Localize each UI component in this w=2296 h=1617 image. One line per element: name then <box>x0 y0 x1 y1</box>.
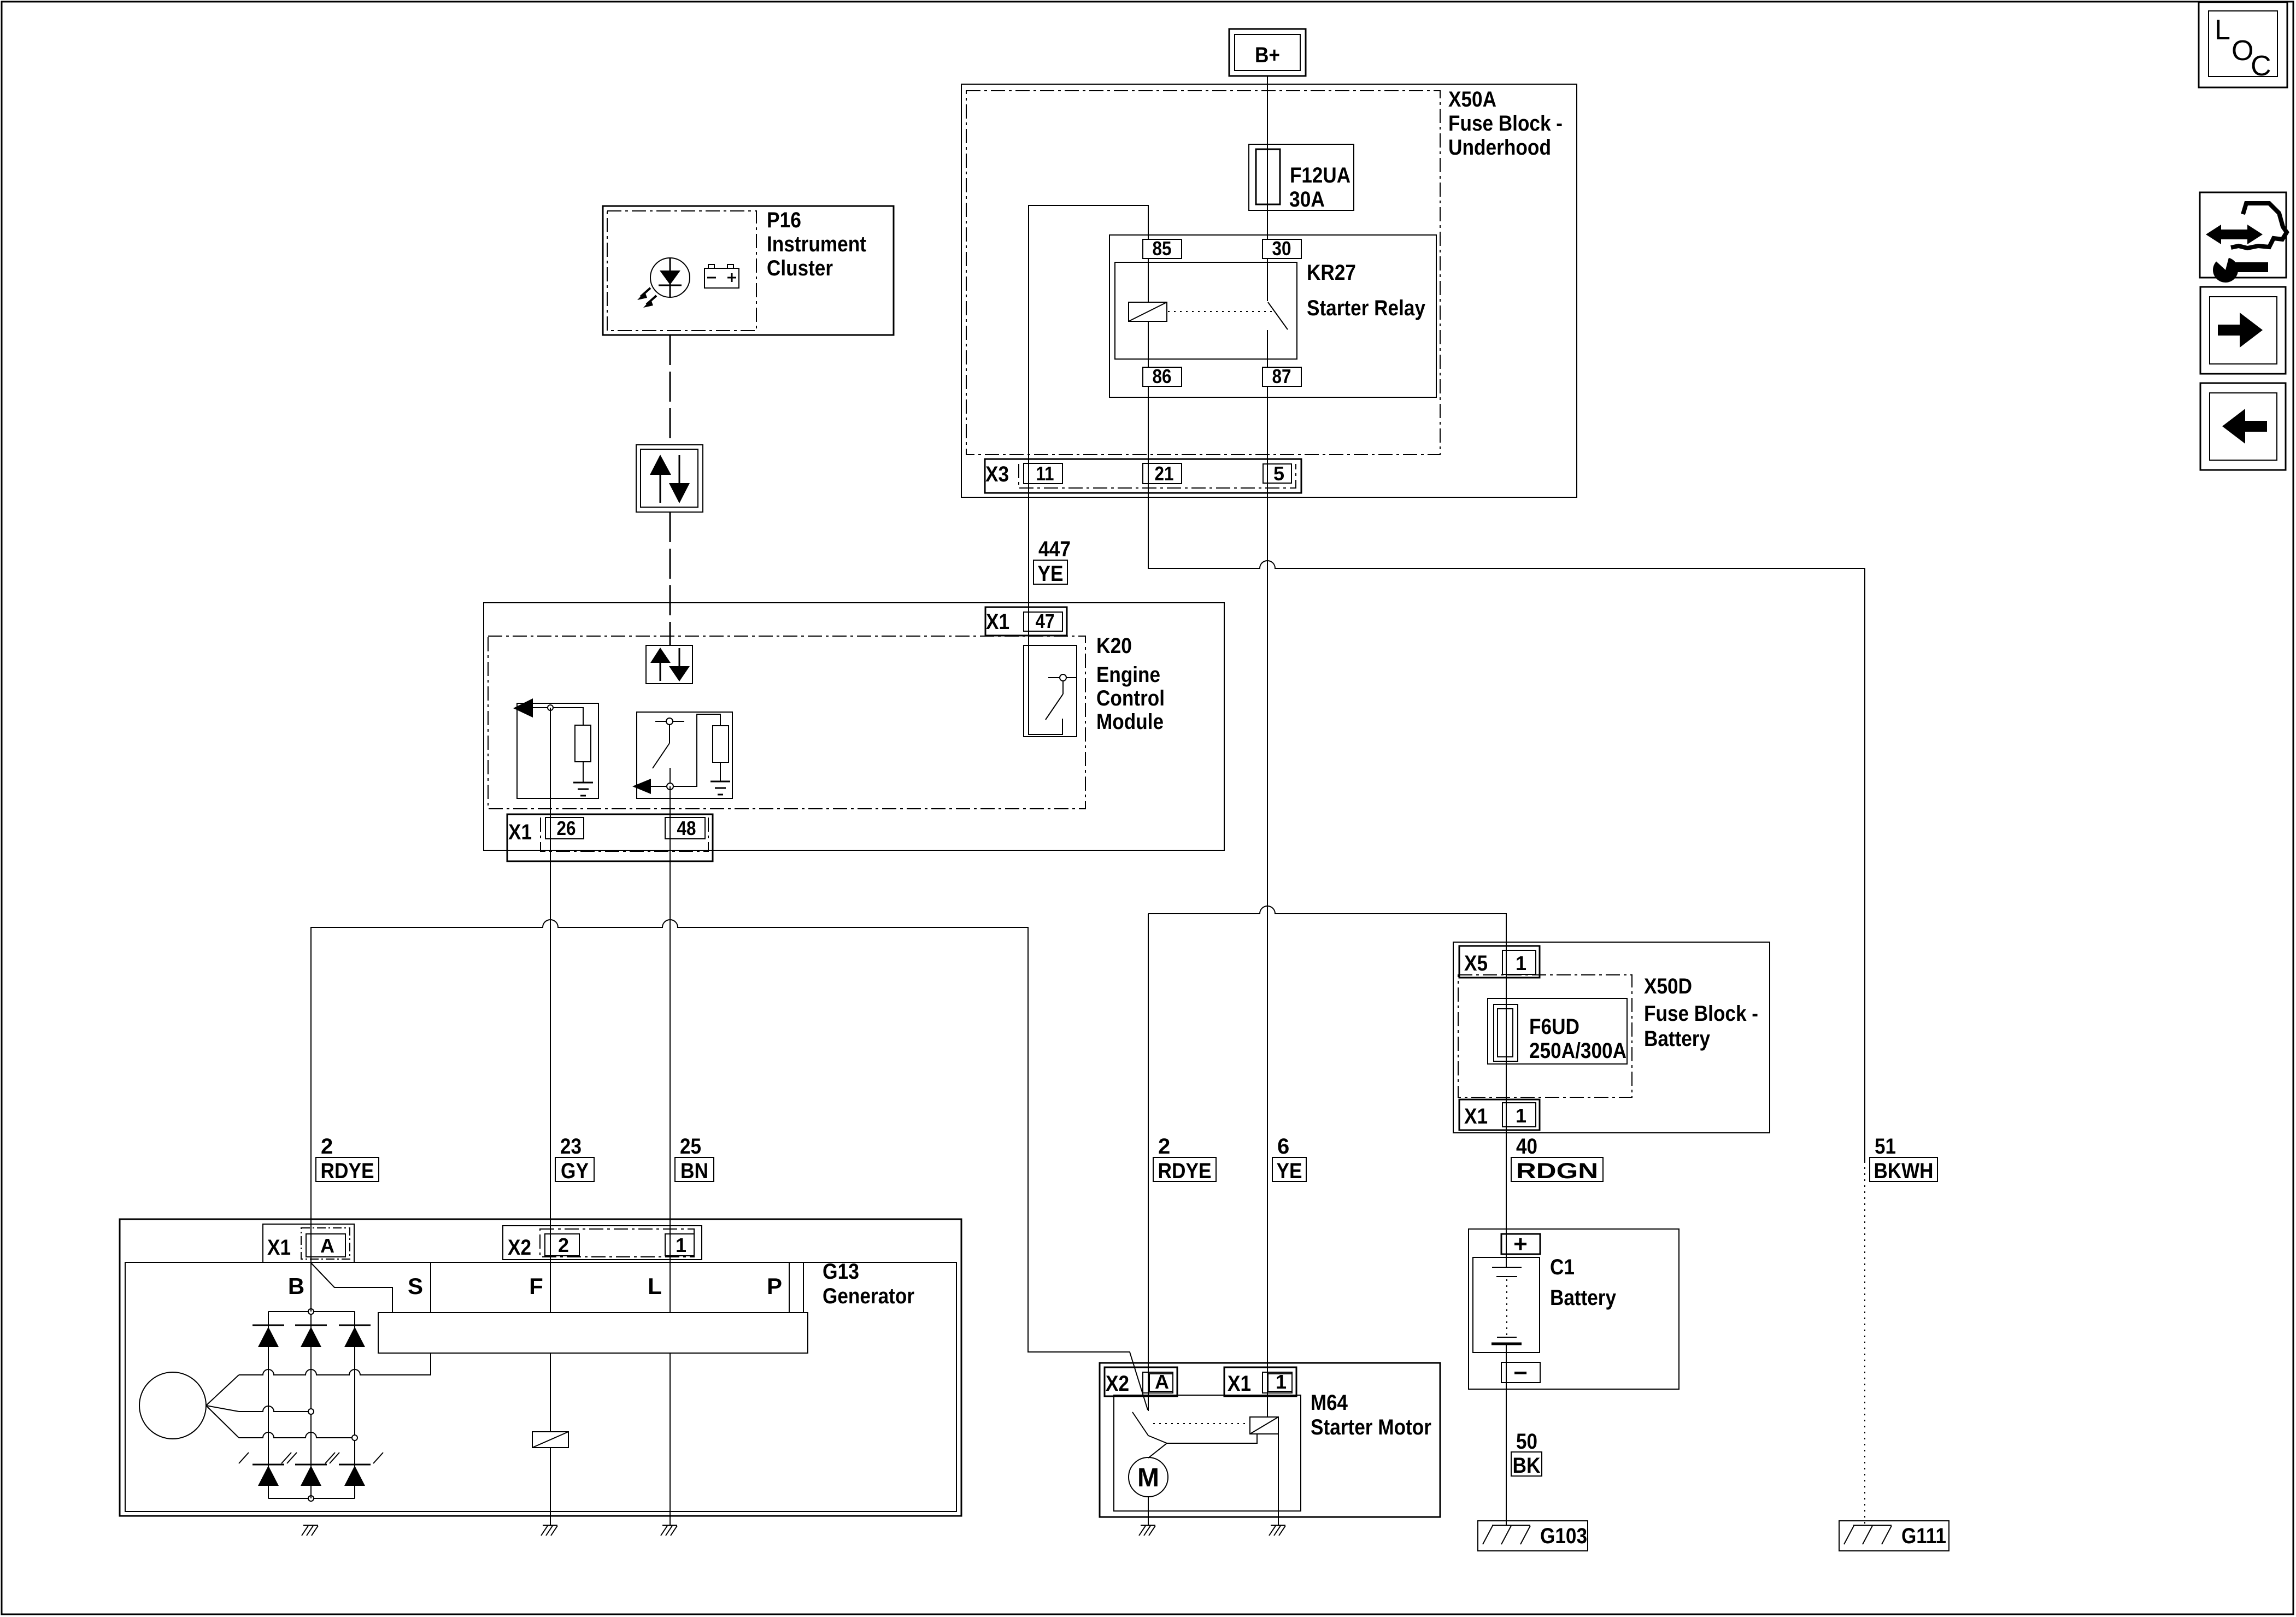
battery telltale icon in P16 <box>704 268 739 288</box>
svg-text:B: B <box>288 1273 304 1299</box>
svg-text:86: 86 <box>1153 365 1172 387</box>
svg-text:51: 51 <box>1875 1134 1896 1159</box>
wire generator B column: pin A through bridge to ground <box>310 1314 312 1498</box>
svg-text:F: F <box>529 1273 543 1299</box>
switch in field monitor circuit <box>655 721 684 722</box>
svg-text:6: 6 <box>1277 1134 1289 1159</box>
svg-text:Fuse Block -: Fuse Block - <box>1448 111 1563 136</box>
wire coil to relay pin 86 <box>1148 321 1149 367</box>
ground symbol under generator F <box>543 1525 557 1526</box>
svg-text:Generator: Generator <box>823 1284 914 1308</box>
LED light arrows <box>641 288 650 297</box>
avalanche diodes bottom row <box>252 1464 284 1466</box>
fuse F12UA element <box>1256 149 1280 204</box>
wire motor to ground <box>1148 1497 1149 1525</box>
svg-text:P: P <box>767 1273 782 1299</box>
wire battery feed: starter junction to X50D X5-1 (hop over 6 YE) <box>1148 906 1506 950</box>
svg-text:85: 85 <box>1153 237 1172 260</box>
svg-text:−: − <box>1513 1360 1528 1386</box>
wire 23 GY: K20 X1-26 to generator F terminal <box>550 708 551 1432</box>
wire node to pull-up resistor <box>673 714 720 786</box>
battery cell box <box>1473 1257 1540 1353</box>
harness outline in harness icon <box>2231 203 2287 248</box>
rectifier diodes top row <box>252 1325 284 1326</box>
ground G103 <box>1478 1521 1588 1551</box>
wire 51 BKWH: dotted segment to G111 <box>1864 1167 1865 1525</box>
connector X2 pin A of starter <box>1105 1367 1177 1396</box>
svg-text:K20: K20 <box>1096 634 1132 658</box>
G13 inner box <box>125 1262 956 1512</box>
starter solenoid contact blade <box>1132 1412 1148 1436</box>
svg-text:Battery: Battery <box>1644 1027 1711 1051</box>
fuse F6UD 250A/300A body <box>1488 998 1627 1064</box>
relay actuation dotted link <box>1168 311 1274 312</box>
svg-text:Cluster: Cluster <box>767 256 833 280</box>
wire relay pin 86 to connector X3-21 <box>1148 386 1149 463</box>
svg-text:Starter Motor: Starter Motor <box>1311 1415 1431 1439</box>
charge indicator LED symbol in P16 <box>650 258 690 297</box>
svg-text:2: 2 <box>1158 1134 1170 1159</box>
svg-text:X50D: X50D <box>1644 974 1692 998</box>
svg-text:X1: X1 <box>1228 1372 1251 1396</box>
svg-text:447: 447 <box>1038 537 1071 561</box>
connector X1 pin A of generator <box>263 1224 354 1262</box>
generator voltage regulator bar <box>378 1313 808 1353</box>
schematic/harness icon box with double arrow and wrench <box>2200 192 2286 278</box>
pin X2-1 <box>665 1234 694 1256</box>
K20 generator-turn-on sub-circuit box <box>517 703 598 798</box>
wire switch lower contact to relay pin 87 <box>1267 330 1268 367</box>
resistor in turn-on circuit <box>575 725 591 762</box>
svg-text:1: 1 <box>676 1234 686 1256</box>
svg-text:21: 21 <box>1155 462 1174 485</box>
svg-text:BKWH: BKWH <box>1874 1159 1934 1183</box>
pin X3-11 <box>1024 463 1062 484</box>
wire solenoid blade to motor and contact <box>1148 1436 1167 1458</box>
wire 25 BN: K20 X1-48 to generator L terminal <box>670 786 671 1525</box>
relay pin 86 <box>1143 367 1182 386</box>
pin X3-5 <box>1263 464 1291 483</box>
svg-text:X1: X1 <box>1464 1104 1488 1128</box>
stator phase 1 wire to regulator <box>239 1353 431 1375</box>
svg-text:Module: Module <box>1096 710 1164 734</box>
svg-text:GY: GY <box>561 1159 589 1183</box>
connector X2 pins 2 and 1 of generator <box>503 1226 702 1260</box>
svg-text:30: 30 <box>1272 237 1291 260</box>
generator rotor/stator circle <box>139 1372 206 1439</box>
connector X1 pin 1 of starter <box>1224 1367 1296 1396</box>
pin X3-21 <box>1143 463 1182 484</box>
relay pin 30 <box>1262 239 1301 258</box>
svg-text:250A/300A: 250A/300A <box>1529 1039 1626 1063</box>
svg-text:F6UD: F6UD <box>1529 1015 1579 1039</box>
svg-text:KR27: KR27 <box>1307 261 1356 285</box>
previous-page left-arrow icon box <box>2200 383 2286 470</box>
svg-text:48: 48 <box>677 817 696 839</box>
svg-text:Battery: Battery <box>1550 1286 1617 1310</box>
wire K20 X1-47 into driver contact <box>1029 645 1062 734</box>
svg-text:Engine: Engine <box>1096 663 1160 687</box>
connector X3 row of fuse block <box>985 459 1301 493</box>
relay KR27 inner body box <box>1115 262 1297 359</box>
generator terminal dividers <box>430 1262 431 1313</box>
stator phase 2 wire to column 2 <box>239 1406 308 1412</box>
svg-text:5: 5 <box>1273 462 1284 485</box>
svg-text:47: 47 <box>1036 610 1055 632</box>
svg-text:X1: X1 <box>267 1236 291 1260</box>
K20 dash-dot inner outline <box>488 636 1085 809</box>
svg-text:G103: G103 <box>1540 1524 1587 1548</box>
internal B-to-S sense link <box>311 1263 392 1313</box>
K20 field monitor sub-circuit box <box>637 712 732 798</box>
battery plates <box>1492 1267 1522 1268</box>
svg-text:BK: BK <box>1513 1454 1541 1478</box>
wire solenoid coil to ground <box>1278 1434 1279 1525</box>
ground symbol under generator L <box>662 1525 677 1526</box>
K20 Engine Control Module outer box <box>484 603 1224 850</box>
ground symbol in K20 turn-on circuit <box>573 782 593 784</box>
relay switch blade <box>1268 302 1288 330</box>
ground G111 <box>1839 1521 1949 1551</box>
wire relay pin 85 to connector X3-11 <box>1029 205 1148 463</box>
svg-text:M: M <box>1137 1463 1159 1492</box>
wire relay pin 87 to X3-5 <box>1267 386 1268 464</box>
svg-text:Fuse Block -: Fuse Block - <box>1644 1002 1758 1026</box>
connection continuation arrow symbol inside K20 <box>646 645 692 684</box>
pin X1-48 <box>665 818 705 839</box>
relay KR27 outer box <box>1109 235 1436 397</box>
G13 Generator outer box <box>120 1219 961 1516</box>
in-line harness connector arrow symbol <box>636 445 703 512</box>
ground symbol under starter motor <box>1141 1525 1155 1526</box>
diode bridge column wires <box>268 1312 269 1498</box>
svg-text:L: L <box>648 1273 662 1299</box>
node on field line <box>667 783 673 790</box>
connector X1 pins 26 and 48 of K20 <box>507 814 713 861</box>
diode bridge top rail <box>268 1311 355 1312</box>
connector X1 pin 47 of K20 <box>985 607 1067 636</box>
power node B+ <box>1229 29 1306 76</box>
wire 447 YE: X3-11 to K20 X1-47 <box>1028 463 1029 645</box>
double-headed arrow in harness icon <box>2206 225 2221 244</box>
svg-text:Instrument: Instrument <box>767 232 866 256</box>
relay pin 85 <box>1143 239 1182 258</box>
signal arrow out (left) of field monitor circuit <box>632 779 651 794</box>
svg-text:RDGN: RDGN <box>1516 1159 1598 1183</box>
signal arrow out (left) of turn-on circuit <box>513 698 533 718</box>
pin X1-26 <box>545 818 584 839</box>
P16 dash-dot inner outline <box>607 211 756 331</box>
svg-text:25: 25 <box>680 1134 701 1159</box>
connector X5 pin 1 of X50D <box>1459 946 1540 978</box>
svg-text:RDYE: RDYE <box>1158 1159 1212 1183</box>
svg-text:26: 26 <box>557 817 576 839</box>
wire 51 BKWH: solid segment down right side <box>1864 568 1865 1163</box>
resistor in field monitor circuit <box>713 726 729 762</box>
svg-text:2: 2 <box>321 1134 333 1159</box>
wrench in harness icon <box>2213 257 2238 283</box>
wire arrow to node and resistor <box>533 708 583 725</box>
svg-text:87: 87 <box>1272 365 1291 387</box>
svg-text:P16: P16 <box>767 208 801 232</box>
svg-text:B+: B+ <box>1255 43 1280 67</box>
svg-text:40: 40 <box>1516 1134 1537 1159</box>
M64 Starter Motor outer box <box>1100 1363 1440 1517</box>
battery negative terminal box <box>1501 1362 1540 1383</box>
svg-text:Underhood: Underhood <box>1448 136 1551 160</box>
svg-text:A: A <box>320 1234 334 1257</box>
wire relay pin 30 to switch contact <box>1267 258 1268 301</box>
svg-text:RDYE: RDYE <box>321 1159 374 1183</box>
K20 low-side driver box <box>1024 645 1077 737</box>
node on generator turn-on line <box>548 705 553 710</box>
M64 inner box <box>1114 1395 1301 1511</box>
svg-text:L: L <box>2215 14 2230 46</box>
svg-text:Starter Relay: Starter Relay <box>1307 296 1426 320</box>
node on bottom rail <box>308 1496 314 1501</box>
svg-text:30A: 30A <box>1289 187 1325 211</box>
svg-text:M64: M64 <box>1311 1391 1348 1415</box>
svg-text:YE: YE <box>1038 562 1064 586</box>
wire resistor to ground <box>720 762 721 781</box>
starter solenoid coil <box>1250 1417 1278 1434</box>
svg-text:X1: X1 <box>508 820 532 844</box>
svg-text:+: + <box>1513 1231 1528 1257</box>
next-page right-arrow icon box <box>2200 287 2286 374</box>
battery positive terminal box <box>1501 1234 1540 1254</box>
X50D Fuse Block - Battery outer box <box>1453 942 1770 1133</box>
svg-text:X1: X1 <box>986 610 1009 634</box>
LOC icon box (top right) <box>2199 2 2287 87</box>
generator field coil <box>532 1432 568 1448</box>
wire 2 RDYE: junction down to starter X2-A <box>1148 914 1149 1411</box>
svg-text:G13: G13 <box>823 1260 859 1284</box>
svg-text:C1: C1 <box>1550 1255 1575 1279</box>
wire resistor to ground <box>583 762 584 783</box>
svg-text:Control: Control <box>1096 686 1165 710</box>
K20 driver switch <box>1048 677 1077 678</box>
svg-text:23: 23 <box>560 1134 582 1159</box>
wire X3-21 ground run to right side <box>1148 463 1865 568</box>
svg-text:X50A: X50A <box>1448 87 1496 111</box>
stator phase fan-out <box>206 1375 239 1406</box>
wire P16 to in-line connector symbol (dashed) <box>670 335 671 445</box>
svg-text:A: A <box>1155 1371 1169 1393</box>
starter motor M circle <box>1129 1457 1168 1497</box>
svg-text:YE: YE <box>1277 1159 1302 1183</box>
wire B+ to fuse F12UA to relay pin 30 <box>1267 76 1268 239</box>
svg-text:1: 1 <box>1276 1371 1287 1393</box>
svg-text:50: 50 <box>1516 1430 1537 1454</box>
svg-text:X3: X3 <box>985 462 1009 486</box>
wire 2 RDYE: generator B output run to starter X2-A <box>311 920 1148 1410</box>
ground symbol in K20 field monitor circuit <box>710 781 730 783</box>
fuse F12UA 30A body <box>1249 144 1354 210</box>
svg-text:S: S <box>408 1273 423 1299</box>
X50A fuse block dash-dot inner outline <box>966 91 1440 455</box>
relay pin 87 <box>1262 367 1301 386</box>
fuse F6UD element <box>1494 1004 1518 1061</box>
wire lower contact to node <box>670 768 671 783</box>
X50A Fuse Block - Underhood outer box <box>961 84 1577 497</box>
diode bridge bottom rail <box>268 1498 355 1499</box>
P16 Instrument Cluster outer box <box>603 206 894 335</box>
relay KR27 coil <box>1129 302 1167 321</box>
wire connector symbol to K20 (dashed) <box>670 512 671 645</box>
ground symbol under generator B <box>303 1525 318 1526</box>
svg-text:BN: BN <box>680 1159 708 1183</box>
node at B output on rail <box>308 1309 314 1314</box>
svg-text:11: 11 <box>1036 462 1054 485</box>
wire generator field coil to ground <box>550 1448 551 1525</box>
solenoid actuation dotted link <box>1153 1423 1250 1424</box>
svg-text:C: C <box>2251 50 2271 82</box>
stator phase 3 wire to column 3 <box>239 1432 352 1438</box>
svg-text:X5: X5 <box>1464 951 1488 975</box>
svg-text:1: 1 <box>1516 952 1526 974</box>
wire 6 YE: X3-5 to starter solenoid coil <box>1267 464 1268 1417</box>
svg-text:1: 1 <box>1516 1104 1526 1127</box>
wire 40 RDGN: X50D X1-1 to battery positive <box>1506 950 1507 1267</box>
svg-text:X2: X2 <box>508 1236 531 1260</box>
wire 50 BK: battery negative to G103 <box>1506 1344 1507 1525</box>
svg-text:F12UA: F12UA <box>1290 163 1350 187</box>
wire relay pin 85 to coil <box>1148 258 1149 302</box>
svg-text:X2: X2 <box>1106 1372 1129 1396</box>
svg-text:G111: G111 <box>1901 1524 1946 1548</box>
X50D dash-dot inner outline <box>1458 975 1632 1097</box>
connector X1 pin 1 of X50D <box>1459 1099 1540 1130</box>
ground symbol under starter solenoid <box>1271 1525 1285 1526</box>
pin X2-2 <box>545 1234 579 1256</box>
C1 Battery outer box <box>1469 1229 1679 1389</box>
svg-text:2: 2 <box>558 1234 569 1256</box>
